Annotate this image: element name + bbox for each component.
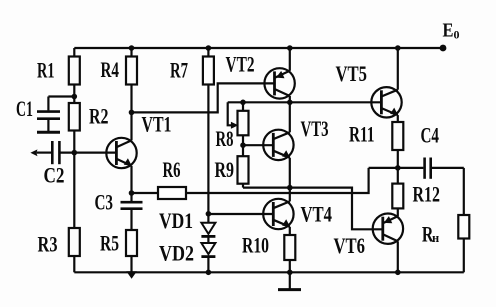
svg-text:C3: C3: [95, 190, 114, 215]
transistor VT6: [373, 214, 403, 276]
resistor R7: [203, 45, 214, 214]
capacitor C4 label: [421, 122, 440, 147]
resistor R6: [132, 187, 187, 199]
node VT1 emitter junction: [129, 190, 135, 196]
node VT3 emitter junction: [287, 185, 293, 191]
resistor R5: [126, 230, 137, 279]
node VT1 collector junction: [129, 110, 135, 116]
svg-text:VT3: VT3: [301, 116, 329, 141]
wire top supply rail: [74, 47, 443, 49]
svg-text:R8: R8: [216, 126, 234, 151]
transistor VT6 label: [334, 233, 366, 258]
resistor R2: [69, 97, 80, 153]
input arrow: [30, 149, 51, 156]
resistor RH load: [458, 168, 469, 272]
node R8 top: [240, 100, 246, 106]
resistor R7 label: [170, 58, 188, 83]
svg-text:E: E: [443, 20, 454, 42]
svg-text:R7: R7: [170, 58, 188, 83]
node R8 bottom: [240, 142, 246, 148]
svg-text:н: н: [432, 231, 439, 245]
resistor RH label: [422, 222, 439, 247]
svg-text:R9: R9: [215, 157, 235, 182]
resistor R1: [69, 48, 80, 97]
svg-text:R5: R5: [100, 231, 119, 256]
node input junction: [72, 150, 78, 156]
resistor R12 label: [413, 182, 441, 207]
ground at C1: [37, 131, 60, 134]
svg-text:R6: R6: [163, 157, 181, 182]
capacitor C1 label: [16, 96, 33, 121]
node bootstrap junction: [395, 165, 401, 171]
wire bottom rail: [74, 271, 464, 273]
svg-text:VT2: VT2: [226, 52, 255, 77]
transistor VT3 label: [301, 116, 329, 141]
wire bootstrap left: [369, 167, 398, 169]
svg-text:R1: R1: [37, 58, 55, 83]
svg-text:VT4: VT4: [301, 202, 333, 227]
svg-text:R2: R2: [89, 104, 109, 129]
transistor VT3: [263, 102, 293, 187]
resistor R8: [238, 102, 249, 145]
resistor R3: [69, 153, 80, 273]
diode VD2: [201, 236, 215, 275]
resistor R4 label: [101, 57, 120, 82]
capacitor C2: [52, 141, 59, 164]
wire mid bias line: [228, 101, 382, 103]
transistor VT1 label: [142, 112, 172, 137]
wire driver output line: [243, 188, 383, 230]
svg-text:0: 0: [454, 28, 460, 42]
svg-text:C2: C2: [44, 163, 65, 188]
svg-text:VT5: VT5: [336, 61, 368, 86]
resistor R6 label: [163, 157, 181, 182]
svg-text:C1: C1: [16, 96, 33, 121]
svg-text:R4: R4: [101, 57, 120, 82]
transistor VT4 label: [301, 202, 333, 227]
svg-text:R3: R3: [38, 232, 58, 257]
diode VD1 label: [159, 208, 193, 233]
resistor R8 wiper: [228, 102, 239, 129]
resistor R8 label: [216, 126, 234, 151]
resistor R12: [392, 168, 403, 217]
node R1-R2 junction: [72, 94, 78, 100]
transistor VT2: [264, 45, 294, 102]
transistor VT2 label: [226, 52, 255, 77]
node VT2 collector junction: [287, 100, 293, 106]
diode VD2 label: [159, 240, 194, 265]
svg-text:R12: R12: [413, 182, 441, 207]
svg-text:C4: C4: [421, 122, 440, 147]
resistor R1 label: [37, 58, 55, 83]
resistor R10 label: [242, 233, 269, 258]
capacitor C3 label: [95, 190, 114, 215]
svg-text:VT6: VT6: [334, 233, 366, 258]
svg-text:VD1: VD1: [159, 208, 193, 233]
node E0 terminal: [440, 45, 447, 52]
transistor VT1: [106, 112, 136, 193]
resistor R9 label: [215, 157, 235, 182]
node diode chain top: [206, 211, 212, 217]
wire R6 to bootstrap node: [186, 168, 369, 193]
svg-text:VT1: VT1: [142, 112, 172, 137]
svg-text:R11: R11: [349, 122, 375, 147]
resistor R10: [284, 235, 295, 275]
resistor R2 label: [89, 104, 109, 129]
resistor R3 label: [38, 232, 58, 257]
wire diode node to VT4 base: [208, 213, 273, 215]
resistor R4: [126, 45, 137, 112]
transistor VT4: [263, 188, 293, 235]
resistor R9: [238, 145, 249, 187]
capacitor C3: [121, 193, 143, 230]
capacitor C4: [398, 158, 464, 179]
transistor VT5 label: [336, 61, 368, 86]
transistor VT5: [371, 45, 401, 122]
resistor R11 label: [349, 122, 375, 147]
capacitor C1: [37, 97, 74, 132]
diode VD1: [201, 214, 215, 237]
svg-text:VD2: VD2: [159, 240, 194, 265]
node E0 label: [443, 20, 460, 42]
svg-text:R10: R10: [242, 233, 269, 258]
resistor R5 label: [100, 231, 119, 256]
capacitor C2 label: [44, 163, 65, 188]
wire C2 to VT1 base: [59, 152, 116, 154]
wire to VT3 base: [243, 144, 273, 146]
ground: [278, 272, 301, 289]
resistor R11: [392, 122, 403, 168]
wire VT1 collector to VT2 base: [132, 83, 275, 112]
